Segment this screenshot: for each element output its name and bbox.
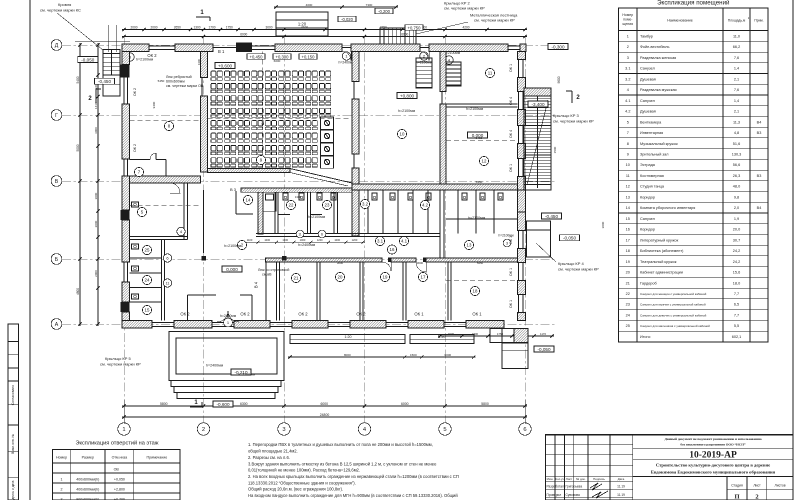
svg-text:h=2100мм: h=2100мм <box>308 215 326 219</box>
svg-text:2650: 2650 <box>174 25 181 29</box>
svg-text:ОК 1: ОК 1 <box>414 312 424 317</box>
svg-text:12: 12 <box>626 185 630 189</box>
svg-text:4,8: 4,8 <box>734 131 739 135</box>
svg-text:3: 3 <box>506 242 508 246</box>
bottom dimension rows <box>122 405 527 407</box>
wheelchair places <box>321 117 334 129</box>
svg-text:24,2: 24,2 <box>733 260 740 264</box>
svg-text:18,0: 18,0 <box>733 281 740 285</box>
svg-text:h=2100мм: h=2100мм <box>444 51 461 55</box>
svg-text:ОВ: ОВ <box>114 468 120 472</box>
svg-text:2,0: 2,0 <box>734 206 739 210</box>
svg-text:11: 11 <box>298 233 302 237</box>
svg-text:ОК 1: ОК 1 <box>509 164 513 172</box>
svg-text:17: 17 <box>421 275 426 280</box>
svg-text:7300: 7300 <box>366 3 373 7</box>
svg-text:без письменного разрешения ООО: без письменного разрешения ООО “ИСП” <box>680 441 745 446</box>
svg-text:18: 18 <box>626 249 630 253</box>
svg-text:1750: 1750 <box>497 332 504 336</box>
svg-text:-0,050: -0,050 <box>563 236 576 241</box>
vestibule walls <box>187 295 189 321</box>
svg-text:Разработал: Разработал <box>547 485 564 489</box>
room 5 bottom wall <box>130 236 188 238</box>
svg-text:Санузел для женщин с универсал: Санузел для женщин с универсальной кабин… <box>640 292 707 296</box>
metal stair top <box>380 28 416 44</box>
svg-text:-0,050: -0,050 <box>537 347 550 352</box>
svg-text:1300: 1300 <box>193 25 200 29</box>
svg-text:Примечание: Примечание <box>146 456 167 460</box>
svg-text:Кол.уч: Кол.уч <box>556 477 565 481</box>
svg-text:21: 21 <box>626 281 630 285</box>
svg-text:1500: 1500 <box>553 146 557 153</box>
sheet frame left border <box>29 0 31 500</box>
svg-text:Люк со строповкой: Люк со строповкой <box>258 268 289 272</box>
svg-text:56,6: 56,6 <box>733 163 740 167</box>
svg-text:Площадь,м: Площадь,м <box>728 19 746 23</box>
svg-text:11,0: 11,0 <box>733 34 740 38</box>
svg-text:А: А <box>55 322 59 328</box>
svg-text:4200: 4200 <box>462 25 469 29</box>
porch bottom right <box>490 329 528 343</box>
svg-text:24: 24 <box>145 278 150 283</box>
svg-text:Литературный кружок: Литературный кружок <box>640 238 679 242</box>
svg-text:130,3: 130,3 <box>732 152 742 156</box>
svg-text:11: 11 <box>626 174 630 178</box>
door circles middle band <box>296 230 304 238</box>
svg-text:1100: 1100 <box>247 238 253 242</box>
svg-text:2,1: 2,1 <box>734 77 739 81</box>
svg-text:1: 1 <box>61 478 63 482</box>
svg-text:Эстрада: Эстрада <box>640 163 656 167</box>
svg-text:1410: 1410 <box>94 102 98 109</box>
svg-text:см. чертежи марки КР: см. чертежи марки КР <box>100 362 141 367</box>
svg-text:ОК 1: ОК 1 <box>509 268 513 276</box>
svg-text:13: 13 <box>467 243 472 248</box>
svg-text:1000: 1000 <box>334 238 340 242</box>
foyer-corridor wall vertical <box>258 192 263 234</box>
svg-text:Санузел для мальчиков с универ: Санузел для мальчиков с универсальной ка… <box>640 324 710 328</box>
svg-text:ОК 2: ОК 2 <box>298 312 308 317</box>
svg-text:-0,450: -0,450 <box>98 79 111 84</box>
svg-text:4800: 4800 <box>76 288 80 295</box>
svg-text:1:20: 1:20 <box>298 22 307 27</box>
svg-text:поме-: поме- <box>623 18 633 22</box>
svg-text:1: 1 <box>122 427 125 433</box>
svg-text:+0,800: +0,800 <box>400 93 415 98</box>
svg-text:Общий расход 20,6п.м. (вес ог: Общий расход 20,6п.м. (вес ограждения 10… <box>248 487 343 492</box>
left dimension rows <box>79 43 81 326</box>
signatures <box>590 483 602 490</box>
frame attribute strip <box>8 324 19 342</box>
exterior wall top <box>122 44 149 52</box>
svg-text:Сувонова: Сувонова <box>566 493 581 497</box>
svg-text:2,1: 2,1 <box>734 110 739 114</box>
svg-text:Изм.: Изм. <box>547 477 554 481</box>
exterior wall left <box>122 52 130 65</box>
svg-text:15: 15 <box>145 308 150 313</box>
svg-text:h=2400мм: h=2400мм <box>220 314 237 318</box>
svg-text:Санузел: Санузел <box>640 217 655 221</box>
wall below stage / room 12 <box>352 184 518 190</box>
middle band small dims <box>239 241 365 243</box>
svg-text:-0,050: -0,050 <box>81 57 94 62</box>
room 14 cell <box>263 192 276 211</box>
svg-text:ОК 1: ОК 1 <box>509 300 513 308</box>
svg-text:5,5: 5,5 <box>734 324 739 328</box>
svg-text:ОК 1: ОК 1 <box>472 312 482 317</box>
vent block top wall <box>236 43 252 53</box>
svg-text:2. Разрезы см. на л.6.: 2. Разрезы см. на л.6. <box>248 455 290 460</box>
interior stair room 11 <box>416 58 432 88</box>
sheet frame right border <box>792 0 794 500</box>
svg-text:22: 22 <box>626 292 630 296</box>
auditorium left wall <box>201 52 208 78</box>
svg-text:Евдокимова Евдокимовского муни: Евдокимова Евдокимовского муниципального… <box>651 470 776 475</box>
svg-text:Кабинет администрации: Кабинет администрации <box>640 271 683 275</box>
vertical axis lines 1-6 <box>123 36 125 423</box>
door mark right wall <box>503 239 511 247</box>
svg-text:5: 5 <box>627 120 629 124</box>
svg-text:1. Перегородки ПВХ в туалетны: 1. Перегородки ПВХ в туалетных и душевых… <box>248 442 433 447</box>
corridor wall middle band top <box>256 233 440 235</box>
svg-text:Экспликация отверстий на эт: Экспликация отверстий на этаж <box>75 440 158 447</box>
svg-text:9600: 9600 <box>557 76 561 83</box>
svg-text:+0,750: +0,750 <box>408 25 422 30</box>
svg-text:+2,800: +2,800 <box>114 488 125 492</box>
svg-text:Инвентарная: Инвентарная <box>640 131 663 135</box>
svg-text:18: 18 <box>473 289 478 294</box>
svg-text:Комната уборочного инвентаря: Комната уборочного инвентаря <box>640 206 695 210</box>
svg-text:Гардероб: Гардероб <box>640 281 658 285</box>
svg-text:+0,450: +0,450 <box>250 54 264 59</box>
svg-text:В 3: В 3 <box>230 187 237 192</box>
svg-text:14: 14 <box>626 206 630 210</box>
svg-text:Г: Г <box>55 113 58 119</box>
svg-text:Подпись и дата: Подпись и дата <box>11 480 15 500</box>
svg-text:Крыльцо КР 4: Крыльцо КР 4 <box>558 261 585 266</box>
svg-text:№ док.: № док. <box>576 477 586 481</box>
svg-text:19: 19 <box>626 260 630 264</box>
svg-text:66,2: 66,2 <box>733 45 740 49</box>
svg-text:24: 24 <box>626 313 630 317</box>
room numbers <box>164 121 173 130</box>
svg-text:1700: 1700 <box>208 25 215 29</box>
svg-text:23: 23 <box>626 303 630 307</box>
svg-text:3000: 3000 <box>265 25 272 29</box>
svg-text:26,3: 26,3 <box>733 174 740 178</box>
room 7 walls <box>130 159 151 161</box>
dashed overhead lines <box>208 117 353 119</box>
corridor south wall <box>266 258 383 262</box>
svg-text:h=2100мм: h=2100мм <box>466 107 484 111</box>
svg-text:Экспликация помещений: Экспликация помещений <box>657 0 730 7</box>
exterior stair top-left <box>103 50 120 97</box>
auditorium stage front <box>208 169 291 173</box>
svg-text:5450: 5450 <box>158 79 165 83</box>
svg-text:ОК 2: ОК 2 <box>133 144 137 152</box>
svg-text:2000: 2000 <box>94 220 98 227</box>
svg-text:2. На всех входных крыльцах в: 2. На всех входных крыльцах выполнить ог… <box>248 474 459 479</box>
svg-text:6: 6 <box>523 427 526 433</box>
corridor door posts <box>388 258 392 263</box>
svg-text:Крыльцо КР 5: Крыльцо КР 5 <box>105 356 132 361</box>
svg-text:см. чертежи марки КР: см. чертежи марки КР <box>444 6 485 11</box>
svg-text:1300: 1300 <box>197 58 201 65</box>
svg-text:7,6: 7,6 <box>734 56 739 60</box>
svg-text:ОК 4: ОК 4 <box>509 97 513 105</box>
svg-text:15,6: 15,6 <box>733 271 740 275</box>
svg-text:14: 14 <box>246 198 251 203</box>
svg-text:1:20: 1:20 <box>439 335 446 339</box>
entrance door arcs <box>217 311 228 322</box>
svg-text:9: 9 <box>627 152 629 156</box>
svg-text:h=2400мм: h=2400мм <box>298 243 316 247</box>
svg-text:П: П <box>734 494 739 500</box>
svg-text:6: 6 <box>321 233 323 237</box>
wall axis В left part <box>130 176 201 183</box>
svg-text:ОК 2: ОК 2 <box>356 312 366 317</box>
svg-text:7,6: 7,6 <box>734 88 739 92</box>
svg-text:-0,300: -0,300 <box>551 44 564 49</box>
svg-text:2: 2 <box>61 488 63 492</box>
axis circles bottom 1-6 <box>118 423 130 435</box>
svg-text:1: 1 <box>627 34 629 38</box>
svg-text:Санузел: Санузел <box>640 99 655 103</box>
svg-text:400х600мм(h): 400х600мм(h) <box>76 488 99 492</box>
svg-text:3.1: 3.1 <box>377 239 384 244</box>
svg-text:20: 20 <box>338 275 343 280</box>
svg-text:1,4: 1,4 <box>734 99 739 103</box>
svg-text:1750: 1750 <box>226 25 233 29</box>
svg-text:ОК 4: ОК 4 <box>509 130 513 138</box>
svg-text:ОК 1: ОК 1 <box>509 64 513 72</box>
svg-text:3000: 3000 <box>601 221 605 228</box>
svg-text:9,8: 9,8 <box>734 195 739 199</box>
svg-text:4.1: 4.1 <box>401 239 408 244</box>
svg-text:4: 4 <box>627 88 629 92</box>
svg-text:ОК 2: ОК 2 <box>240 312 250 317</box>
svg-text:h=2100мм: h=2100мм <box>238 373 256 377</box>
svg-text:1000: 1000 <box>300 238 306 242</box>
svg-text:Листов: Листов <box>774 484 785 488</box>
svg-text:Б: Б <box>55 257 59 263</box>
svg-text:12: 12 <box>482 159 487 164</box>
porch steps <box>171 381 281 387</box>
door arcs <box>342 52 351 61</box>
svg-text:4.2: 4.2 <box>422 203 429 208</box>
svg-text:6000: 6000 <box>444 353 451 357</box>
svg-text:Студия танца: Студия танца <box>640 185 665 189</box>
svg-text:1200: 1200 <box>317 238 323 242</box>
svg-text:Данный документ не подлежит ра: Данный документ не подлежит размножению … <box>664 437 762 441</box>
svg-text:В3: В3 <box>757 131 762 135</box>
bottom ramps 1:20 <box>290 335 405 344</box>
svg-text:19: 19 <box>383 275 388 280</box>
svg-text:Костюмерная: Костюмерная <box>640 174 664 178</box>
svg-text:Подпись: Подпись <box>593 477 605 481</box>
svg-text:На входном пандусе выполнить о: На входном пандусе выполнить ограждение … <box>248 493 458 498</box>
svg-text:В: В <box>55 179 59 185</box>
svg-text:7,7: 7,7 <box>734 292 739 296</box>
svg-text:20: 20 <box>626 271 630 275</box>
svg-text:-0,450: -0,450 <box>545 214 558 219</box>
svg-text:Проверил: Проверил <box>547 493 562 497</box>
svg-text:ОК 2: ОК 2 <box>180 312 190 317</box>
svg-text:см. чертежи марки КР: см. чертежи марки КР <box>558 267 599 272</box>
svg-text:Стадия: Стадия <box>731 484 743 488</box>
svg-text:30,7: 30,7 <box>733 238 740 242</box>
svg-text:6000: 6000 <box>401 402 409 406</box>
svg-text:Зрительный зал: Зрительный зал <box>640 152 668 156</box>
wall rooms 11-12 divider <box>446 103 518 105</box>
exterior wall right with windows <box>518 52 526 60</box>
svg-text:10-2019-АР: 10-2019-АР <box>689 450 737 460</box>
svg-text:В4: В4 <box>757 206 762 210</box>
svg-text:2: 2 <box>755 494 758 500</box>
svg-text:Раздевалка мужская: Раздевалка мужская <box>640 88 677 92</box>
sanitary partitions left <box>130 257 162 259</box>
svg-text:3.Вокруг здания выполнить отмо: 3.Вокруг здания выполнить отмостку из бе… <box>248 461 437 466</box>
svg-text:3: 3 <box>627 56 629 60</box>
svg-text:1:20: 1:20 <box>345 335 352 339</box>
svg-text:Номер: Номер <box>622 13 633 17</box>
svg-text:21: 21 <box>294 276 299 281</box>
svg-text:13: 13 <box>626 195 630 199</box>
svg-text:Прим.: Прим. <box>754 19 763 23</box>
svg-text:Размер: Размер <box>82 456 94 460</box>
svg-text:Библиотека (абонемент): Библиотека (абонемент) <box>640 249 684 253</box>
top dimension rows <box>122 29 527 31</box>
svg-text:Коридор: Коридор <box>640 228 655 232</box>
ramp top 1:20 <box>276 12 328 36</box>
svg-text:3.2: 3.2 <box>625 77 630 81</box>
svg-text:51,6: 51,6 <box>733 142 740 146</box>
svg-text:Отм.низа: Отм.низа <box>112 456 128 460</box>
svg-text:5800: 5800 <box>481 402 489 406</box>
svg-text:3000: 3000 <box>417 261 424 265</box>
svg-text:7: 7 <box>627 131 629 135</box>
svg-text:ОК 1: ОК 1 <box>509 236 513 244</box>
porch right КР4 <box>527 221 551 257</box>
svg-text:1200: 1200 <box>352 238 358 242</box>
svg-text:1170: 1170 <box>540 332 546 336</box>
svg-text:3000: 3000 <box>94 192 98 199</box>
svg-text:Кровля: Кровля <box>58 2 71 7</box>
svg-text:общей площадью 21,4м2.: общей площадью 21,4м2. <box>248 449 298 454</box>
svg-text:4000: 4000 <box>306 3 313 7</box>
svg-text:5: 5 <box>443 427 446 433</box>
svg-text:Итого:: Итого: <box>640 335 651 339</box>
stair right КР3 <box>524 88 551 190</box>
svg-text:см. чертежи марки ОВ: см. чертежи марки ОВ <box>166 84 204 88</box>
svg-text:h=2100мм: h=2100мм <box>398 109 416 113</box>
svg-text:25: 25 <box>626 324 630 328</box>
svg-text:23: 23 <box>325 203 330 208</box>
svg-text:2000: 2000 <box>94 270 98 277</box>
svg-text:Взам. инв. №: Взам. инв. № <box>11 434 15 454</box>
svg-text:400х600мм(h): 400х600мм(h) <box>76 478 99 482</box>
svg-text:+0,150: +0,150 <box>302 54 316 59</box>
svg-text:Фойе-вестибюль: Фойе-вестибюль <box>640 45 669 49</box>
svg-text:-0,020: -0,020 <box>341 17 354 22</box>
svg-text:0,000: 0,000 <box>226 267 238 272</box>
svg-text:Григорьева: Григорьева <box>566 485 583 489</box>
svg-text:3.1: 3.1 <box>625 67 630 71</box>
foyer-hall wall at axis 2 <box>203 190 205 253</box>
svg-text:9400: 9400 <box>152 101 156 108</box>
svg-text:Крыльцо КР 3: Крыльцо КР 3 <box>553 113 580 118</box>
room 5 right wall <box>183 183 185 240</box>
svg-text:24800: 24800 <box>320 413 330 417</box>
elevation labels <box>78 57 98 63</box>
svg-text:Лист: Лист <box>753 484 761 488</box>
svg-text:602,1: 602,1 <box>732 335 742 339</box>
svg-text:8000: 8000 <box>344 353 351 357</box>
svg-text:Дата: Дата <box>618 477 625 481</box>
svg-text:10: 10 <box>626 163 630 167</box>
svg-text:В4: В4 <box>757 120 762 124</box>
svg-text:5400: 5400 <box>76 76 80 83</box>
svg-text:В3: В3 <box>757 174 762 178</box>
svg-text:6000: 6000 <box>274 59 281 63</box>
partitions middle small rooms left zone <box>274 192 276 233</box>
toilet fixtures middle band <box>283 193 288 200</box>
svg-text:Тамбур: Тамбур <box>640 34 653 38</box>
svg-text:5000: 5000 <box>76 144 80 151</box>
svg-text:5450: 5450 <box>477 261 484 265</box>
svg-text:см. чертежи марки КР: см. чертежи марки КР <box>553 119 594 124</box>
svg-text:Раздевалка женская: Раздевалка женская <box>640 56 676 60</box>
svg-text:Лист: Лист <box>566 477 573 481</box>
svg-text:h=2100мм: h=2100мм <box>468 216 486 220</box>
svg-text:5450: 5450 <box>476 180 483 184</box>
svg-text:1300: 1300 <box>295 195 302 199</box>
auditorium right wall <box>352 52 359 82</box>
porch bottom КР5 <box>169 332 284 381</box>
svg-text:118.13330.2012 “Общественные: 118.13330.2012 “Общественные здания и со… <box>248 480 356 485</box>
svg-text:В 1: В 1 <box>218 49 225 54</box>
svg-text:2000: 2000 <box>130 25 137 29</box>
auditorium right wall lower extension <box>352 190 359 236</box>
title block <box>546 435 793 500</box>
svg-text:11.19: 11.19 <box>617 493 625 497</box>
svg-text:11: 11 <box>166 282 170 286</box>
svg-text:6300: 6300 <box>240 402 248 406</box>
svg-text:17: 17 <box>626 238 630 242</box>
svg-text:Коридор: Коридор <box>640 195 655 199</box>
svg-text:Санузел для девочек с универса: Санузел для девочек с универсальной каби… <box>640 313 707 317</box>
svg-text:2: 2 <box>202 427 205 433</box>
svg-text:8: 8 <box>627 142 629 146</box>
svg-text:3000: 3000 <box>337 261 344 265</box>
svg-text:10: 10 <box>400 132 405 137</box>
svg-text:1,9: 1,9 <box>734 217 739 221</box>
top ramp dims <box>274 6 398 8</box>
column squares on axis Б <box>202 256 207 261</box>
svg-text:11.19: 11.19 <box>617 485 625 489</box>
partitions bottom rooms <box>265 262 267 321</box>
svg-text:Строительство культурно-досуго: Строительство культурно-досугового центр… <box>656 463 770 468</box>
svg-text:Номер: Номер <box>56 456 67 460</box>
svg-text:Д: Д <box>55 43 59 49</box>
svg-text:15: 15 <box>626 217 630 221</box>
svg-text:Душевая: Душевая <box>640 110 656 114</box>
svg-text:11: 11 <box>488 71 493 76</box>
svg-text:5800: 5800 <box>160 402 168 406</box>
svg-text:3750: 3750 <box>380 25 387 29</box>
room 14 walls <box>235 191 237 214</box>
svg-text:h=2100мм: h=2100мм <box>416 61 433 65</box>
